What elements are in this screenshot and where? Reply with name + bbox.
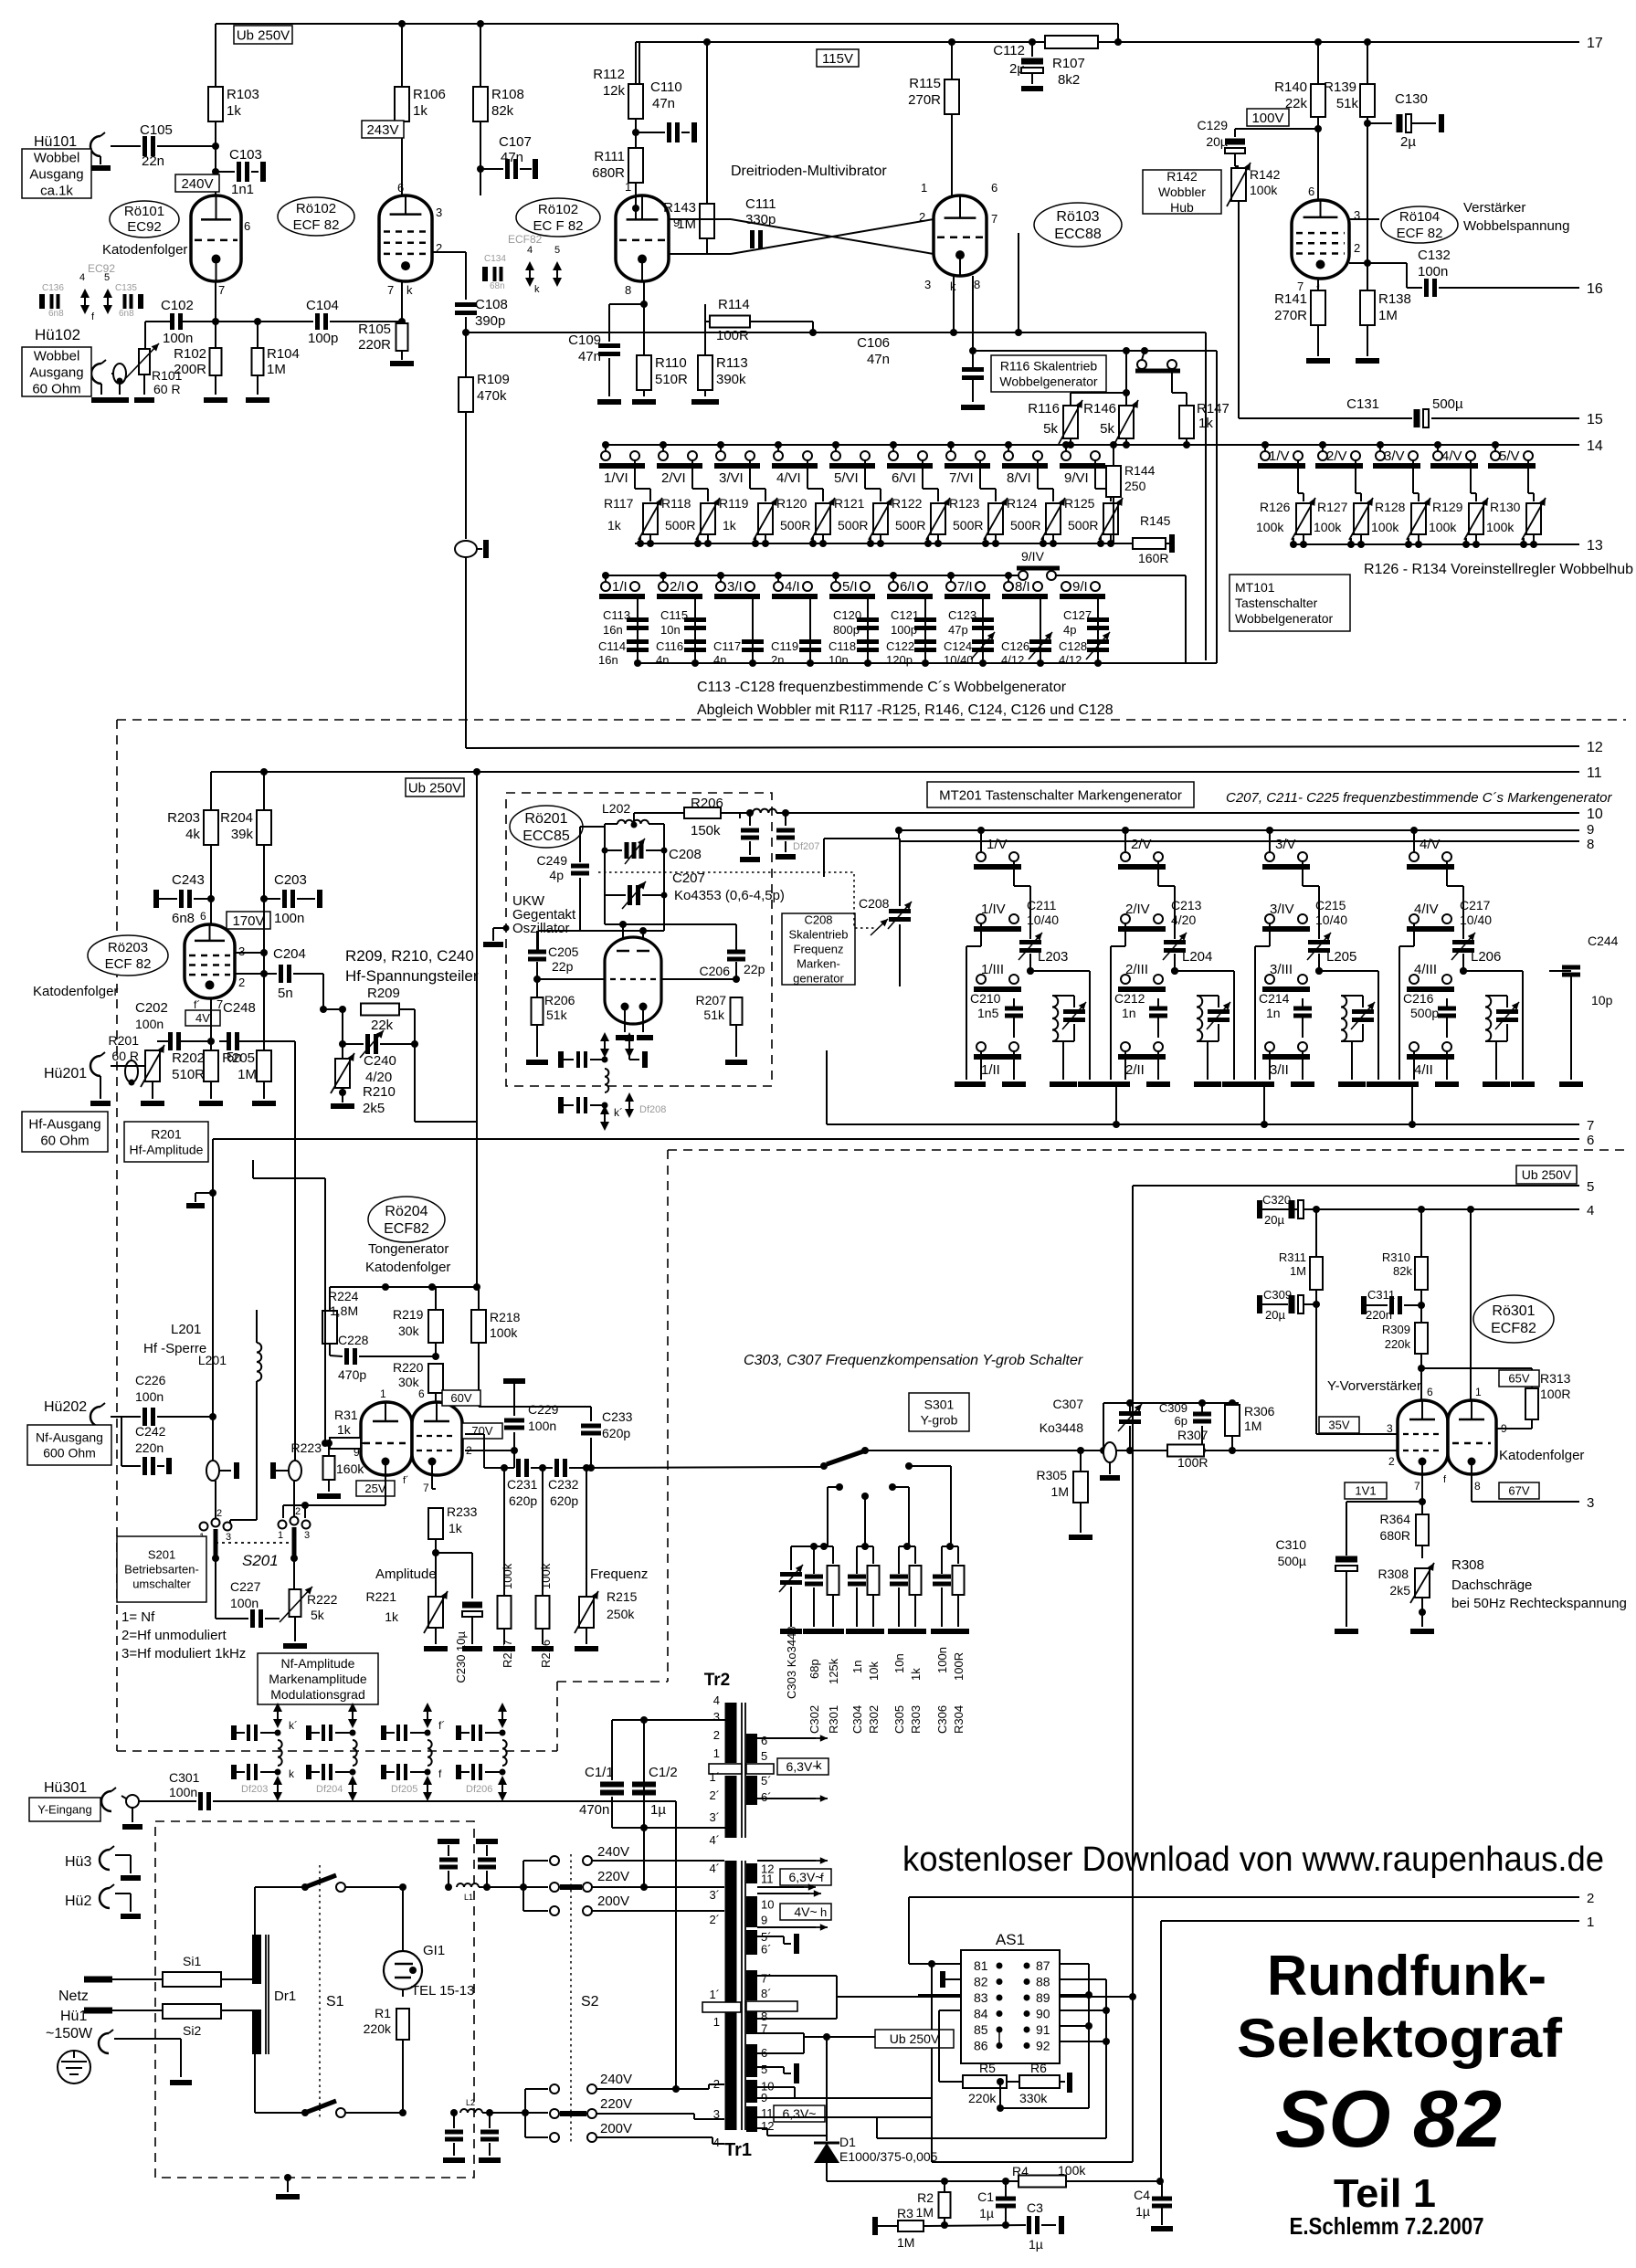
label Rö101 EC92 ellipse (110, 201, 179, 237)
capacitor C309 6p (1159, 1401, 1211, 1454)
svg-text:82k: 82k (491, 103, 514, 119)
svg-text:R311: R311 (1279, 1250, 1306, 1264)
wire Dr1 to S1 upper (255, 1887, 305, 1935)
svg-text:f´: f´ (194, 998, 200, 1011)
dashed bottom border middle section (117, 1750, 557, 1752)
switch 2/V (1315, 441, 1363, 466)
svg-text:ca.1k: ca.1k (40, 183, 73, 198)
svg-text:100p: 100p (308, 331, 338, 346)
svg-text:Tr2: Tr2 (704, 1671, 731, 1690)
label Ub 250V box (234, 26, 292, 44)
svg-text:Dachschräge: Dachschräge (1451, 1577, 1532, 1593)
svg-text:7´: 7´ (761, 1971, 772, 1985)
svg-text:89: 89 (1036, 1990, 1050, 2005)
svg-text:1k: 1k (607, 518, 622, 533)
svg-text:4/V: 4/V (1420, 837, 1441, 852)
svg-text:R201: R201 (109, 1033, 140, 1048)
resistor R311 (1279, 1209, 1323, 1308)
heater detail ECF82 mid (484, 233, 562, 295)
switch 4/II marker (1407, 1042, 1454, 1078)
capacitors unit 9/I (1059, 596, 1110, 667)
capacitor C1/2 (632, 1765, 678, 1831)
svg-text:60V: 60V (450, 1391, 471, 1405)
svg-text:6n8: 6n8 (172, 911, 195, 926)
svg-text:Teil 1: Teil 1 (1334, 2171, 1436, 2216)
svg-text:100k: 100k (490, 1325, 518, 1340)
svg-text:R126: R126 (1260, 500, 1291, 514)
svg-text:C205: C205 (548, 944, 579, 959)
connector Hü202 (44, 1399, 105, 1434)
ground stub left of UKW box (483, 925, 510, 945)
label 60V box (442, 1390, 480, 1406)
svg-text:330p: 330p (745, 212, 776, 227)
svg-text:500R: 500R (895, 518, 925, 533)
capacitor C215 variable (1315, 898, 1347, 927)
wire 100V rail (1235, 128, 1318, 130)
svg-text:1: 1 (1587, 1915, 1594, 1930)
resistor R107 (1045, 36, 1098, 88)
svg-text:R122: R122 (892, 496, 923, 511)
node on Ub rail for R106 (398, 20, 406, 27)
svg-text:10p: 10p (1591, 993, 1613, 1007)
svg-text:5k: 5k (311, 1608, 325, 1622)
svg-text:1= Nf: 1= Nf (121, 1609, 155, 1625)
svg-text:13: 13 (1587, 538, 1603, 554)
svg-text:C109: C109 (568, 332, 601, 348)
svg-text:Y-Eingang: Y-Eingang (37, 1803, 92, 1817)
potentiometer R210 (331, 1040, 396, 1116)
svg-text:8: 8 (1474, 1480, 1481, 1493)
svg-text:Hü301: Hü301 (44, 1780, 87, 1796)
capacitor C214 (1259, 991, 1312, 1038)
svg-text:100k: 100k (1256, 520, 1284, 534)
svg-text:2: 2 (713, 1728, 720, 1742)
svg-text:SO 82: SO 82 (1275, 2073, 1502, 2164)
svg-text:4n: 4n (656, 653, 669, 667)
label Ub 250V box 3 (1516, 1166, 1577, 1184)
svg-text:C210: C210 (970, 991, 1001, 1006)
fuse Si2 (163, 2004, 252, 2038)
capacitors unit 1/I (598, 596, 649, 667)
svg-text:ECF 82: ECF 82 (1397, 226, 1443, 241)
svg-text:25V: 25V (364, 1482, 385, 1495)
svg-text:4n: 4n (713, 653, 726, 667)
svg-text:C128: C128 (1059, 639, 1087, 653)
wire upper to selector (479, 1861, 548, 1911)
svg-text:C124: C124 (944, 639, 972, 653)
resistor R145 (1133, 513, 1172, 565)
switch S301 arm (820, 1447, 869, 1470)
label Rö102 ECF82 ellipse 2 (516, 198, 600, 237)
wire multivibrator cross coupling (669, 219, 934, 254)
wire group 2 right column (1171, 967, 1234, 975)
switch 8/I (1002, 572, 1048, 596)
svg-text:390p: 390p (475, 313, 505, 329)
svg-text:R233: R233 (447, 1504, 478, 1519)
label 6.3V box bottom (774, 2105, 825, 2122)
ground mains box (276, 2174, 300, 2197)
svg-text:4´: 4´ (709, 1833, 720, 1847)
svg-text:Wobbelgenerator: Wobbelgenerator (1235, 611, 1333, 626)
svg-text:R140: R140 (1274, 79, 1307, 95)
potentiometer R201 (109, 1033, 164, 1103)
wire 1V1 to C310 (1346, 1502, 1422, 1556)
svg-text:100V: 100V (1251, 111, 1283, 126)
svg-text:1M: 1M (916, 2205, 934, 2220)
wire bus 11 Ub250V (211, 765, 1602, 781)
transformer Tr2 core (741, 1703, 743, 1838)
resistor R364 (1380, 1502, 1429, 1558)
svg-text:10n: 10n (892, 1653, 906, 1673)
svg-text:100k: 100k (1250, 183, 1278, 197)
svg-text:5/V: 5/V (1499, 448, 1520, 464)
svg-text:C208: C208 (804, 913, 832, 927)
svg-text:C118: C118 (829, 639, 856, 653)
svg-text:90: 90 (1036, 2007, 1050, 2021)
svg-text:C131: C131 (1346, 396, 1379, 412)
node bus17 C112 (1029, 38, 1036, 46)
svg-text:100k: 100k (1486, 520, 1515, 534)
svg-text:4: 4 (1587, 1203, 1594, 1218)
wire R5 R6 node down (997, 2082, 1089, 2112)
connector AS1 box (961, 1931, 1060, 2063)
selector lower 220V (550, 2096, 724, 2119)
svg-text:k´: k´ (614, 1106, 623, 1119)
svg-text:2n: 2n (771, 653, 784, 667)
svg-text:9/VI: 9/VI (1064, 470, 1089, 486)
resistor R108 (473, 24, 524, 169)
svg-text:6: 6 (418, 1387, 425, 1400)
potentiometer R222 (280, 1587, 338, 1646)
svg-text:4/II: 4/II (1414, 1062, 1433, 1078)
svg-text:16n: 16n (603, 623, 623, 637)
wire vertical 233 (186, 1139, 216, 1461)
svg-text:12k: 12k (603, 83, 626, 99)
resistor R306 (1225, 1403, 1275, 1454)
svg-text:500R: 500R (1010, 518, 1040, 533)
wire C204 to R209 node (320, 974, 346, 1013)
svg-text:4V~: 4V~ (794, 1904, 817, 1919)
svg-text:3: 3 (713, 1710, 720, 1724)
svg-text:R201: R201 (151, 1126, 182, 1141)
wire group 3 right column (1315, 967, 1378, 975)
svg-text:600 Ohm: 600 Ohm (43, 1445, 96, 1460)
resistor R144 (1106, 441, 1156, 543)
svg-text:R116: R116 (1028, 401, 1060, 417)
inductor L201 (198, 1310, 261, 1523)
capacitor C226 (111, 1373, 216, 1426)
svg-text:500µ: 500µ (1278, 1554, 1306, 1568)
resistor R113 (691, 304, 748, 402)
switch 4/VI (772, 441, 818, 486)
svg-text:20µ: 20µ (1264, 1213, 1284, 1227)
svg-text:R221: R221 (366, 1589, 397, 1604)
diode D1 (814, 2037, 938, 2181)
svg-text:Hü101: Hü101 (34, 134, 77, 150)
svg-text:7: 7 (1414, 1480, 1420, 1493)
svg-text:220k: 220k (1385, 1337, 1411, 1351)
svg-text:150k: 150k (691, 823, 721, 839)
label 4V h box (780, 1904, 831, 1920)
svg-text:Katodenfolger: Katodenfolger (1499, 1448, 1584, 1463)
label 115V box (817, 49, 859, 67)
svg-text:2: 2 (1388, 1455, 1395, 1468)
terminal AS1 pin82 (943, 1971, 961, 1988)
svg-text:Ub 250V: Ub 250V (1522, 1167, 1572, 1182)
svg-text:1/IV: 1/IV (981, 902, 1006, 917)
svg-text:500R: 500R (838, 518, 868, 533)
resistor R203 (167, 772, 218, 899)
svg-text:ECC85: ECC85 (522, 828, 570, 844)
svg-text:R141: R141 (1274, 291, 1307, 307)
wire lower to selector (482, 2089, 548, 2137)
svg-text:Hf-Ausgang: Hf-Ausgang (28, 1116, 100, 1132)
svg-text:92: 92 (1036, 2039, 1050, 2053)
switch S1 upper arm (301, 1875, 402, 1892)
svg-text:100k: 100k (501, 1563, 514, 1589)
svg-text:800p: 800p (833, 623, 860, 637)
label 35V box (1319, 1417, 1359, 1433)
svg-text:243V: 243V (366, 122, 398, 138)
svg-text:500R: 500R (1068, 518, 1098, 533)
svg-text:~150W: ~150W (46, 2026, 93, 2041)
svg-text:120p: 120p (886, 653, 913, 667)
capacitor C244 (1549, 934, 1619, 1084)
svg-text:1/II: 1/II (981, 1062, 1000, 1078)
svg-text:ECF82: ECF82 (384, 1221, 429, 1237)
lamp GI1 (384, 1883, 475, 1999)
transformer Tr1 left winding (702, 1861, 741, 2130)
wire y384 line (973, 350, 1217, 352)
svg-text:3: 3 (238, 944, 245, 958)
svg-text:C116: C116 (656, 639, 683, 653)
svg-text:160k: 160k (336, 1461, 364, 1476)
svg-text:C111: C111 (745, 196, 776, 212)
svg-text:R209: R209 (367, 986, 400, 1001)
svg-text:2/IV: 2/IV (1125, 902, 1150, 917)
svg-text:C122: C122 (886, 639, 914, 653)
oscillator loop wires (605, 824, 664, 931)
wire Tr1 arrows right (757, 1857, 828, 1931)
svg-text:680R: 680R (1380, 1528, 1410, 1543)
svg-text:100n: 100n (1418, 264, 1448, 280)
label Wobbel Ausgang 60 Ohm box (22, 347, 91, 396)
resistor R143 (663, 200, 714, 254)
tube Rö102b (616, 180, 680, 297)
svg-text:6: 6 (1308, 185, 1314, 198)
svg-text:L205: L205 (1326, 949, 1356, 965)
svg-text:Df203: Df203 (241, 1784, 268, 1795)
ground leads group 3 (1243, 971, 1390, 1084)
svg-text:R144: R144 (1124, 463, 1156, 478)
capacitor C242 (121, 1417, 169, 1475)
svg-text:250k: 250k (607, 1607, 635, 1621)
svg-text:2: 2 (919, 210, 925, 224)
wire vertical 323 S201 feed (294, 1041, 296, 1461)
svg-text:6n8: 6n8 (119, 309, 134, 319)
svg-text:Skalentrieb: Skalentrieb (788, 928, 848, 942)
switch 4/V marker (1407, 827, 1463, 939)
svg-text:R310: R310 (1382, 1250, 1410, 1264)
dashed section divider top (117, 719, 1626, 721)
svg-text:C127: C127 (1063, 608, 1092, 622)
svg-text:8k2: 8k2 (1058, 72, 1080, 88)
wire bus 14 (606, 444, 1579, 446)
choke Dr1 (257, 1935, 296, 2054)
svg-text:R102: R102 (174, 346, 206, 362)
wire cathode Rö101 to R102 (215, 281, 216, 350)
svg-text:C212: C212 (1114, 991, 1145, 1006)
svg-text:R219: R219 (393, 1307, 424, 1322)
wire Rö104 pin3 stub (1349, 218, 1379, 220)
capacitor C105 (111, 122, 219, 169)
svg-text:100k: 100k (1314, 520, 1342, 534)
svg-text:100k: 100k (1371, 520, 1399, 534)
svg-text:R31: R31 (334, 1408, 358, 1422)
svg-text:Wobbelgenerator: Wobbelgenerator (999, 374, 1097, 388)
svg-text:115V: 115V (822, 51, 853, 67)
svg-text:82: 82 (974, 1975, 988, 1989)
transformer Tr1 left pin labels (709, 1862, 720, 2149)
wire pentode grid to C108 node (432, 251, 466, 253)
svg-text:220V: 220V (597, 1869, 629, 1884)
wire Tr2 pin6p arrow (757, 1795, 828, 1802)
svg-text:R209, R210, C240: R209, R210, C240 (345, 947, 474, 965)
connector 150W jack (99, 2030, 192, 2083)
svg-text:MT201 Tastenschalter Marken: MT201 Tastenschalter Markengenerator (939, 787, 1182, 803)
svg-text:Y-Vorverstärker: Y-Vorverstärker (1327, 1378, 1421, 1394)
capacitor C213 variable (1171, 898, 1202, 927)
svg-text:4´: 4´ (709, 1862, 720, 1875)
wire 35V grid feed (1316, 1433, 1398, 1435)
svg-text:10/40: 10/40 (1315, 912, 1347, 927)
svg-text:Rö102: Rö102 (296, 201, 336, 216)
svg-text:R104: R104 (267, 346, 300, 362)
svg-text:390k: 390k (716, 372, 746, 387)
capacitor C208 skalentrieb variable (859, 896, 912, 986)
node bus17 R143 (703, 38, 711, 46)
svg-text:1: 1 (1475, 1386, 1482, 1398)
svg-text:200V: 200V (600, 2121, 632, 2136)
resistor R102 (174, 346, 227, 400)
capacitor C4 (1134, 2181, 1173, 2229)
svg-text:R121: R121 (834, 496, 865, 511)
capacitor C202 (135, 1000, 215, 1050)
capacitor C106 (857, 335, 985, 407)
svg-text:100n: 100n (163, 331, 193, 346)
capacitor C243 (156, 872, 215, 926)
svg-text:R309: R309 (1382, 1323, 1410, 1336)
svg-text:7: 7 (387, 283, 394, 297)
svg-text:5k: 5k (1043, 421, 1058, 437)
svg-text:500R: 500R (780, 518, 810, 533)
label Rö103 ECC88 ellipse (1034, 203, 1122, 247)
capacitor C102 (145, 298, 219, 346)
capacitor C1 (977, 2181, 1016, 2229)
svg-text:R110: R110 (655, 355, 687, 371)
capacitor C108 (455, 297, 508, 332)
svg-text:5n: 5n (278, 986, 293, 1001)
svg-text:6/VI: 6/VI (892, 470, 916, 486)
svg-text:Hü202: Hü202 (44, 1399, 87, 1415)
svg-text:9: 9 (1501, 1422, 1507, 1435)
svg-text:C108: C108 (475, 297, 508, 312)
svg-text:Rö104: Rö104 (1399, 209, 1440, 225)
selector lower 200V (550, 2121, 724, 2144)
capacitor C112 electrolytic (993, 42, 1043, 89)
node bus4 R310 (1418, 1206, 1425, 1213)
svg-text:C132: C132 (1418, 248, 1451, 263)
svg-text:R215: R215 (607, 1589, 638, 1604)
svg-text:Frequenz: Frequenz (794, 943, 844, 956)
svg-text:R218: R218 (490, 1310, 521, 1324)
svg-text:C240: C240 (364, 1053, 396, 1069)
switch 3/VI (714, 441, 760, 486)
svg-text:Si1: Si1 (183, 1954, 201, 1968)
resistor R309 (1382, 1299, 1428, 1400)
svg-text:Hf-Spannungsteiler: Hf-Spannungsteiler (345, 967, 479, 985)
svg-text:R118: R118 (661, 496, 691, 511)
svg-text:22n: 22n (142, 153, 164, 169)
capacitor C232 (534, 1459, 824, 1508)
potentiometer R126 (1256, 460, 1315, 548)
node bus17 R115 (948, 38, 955, 46)
svg-text:10/40: 10/40 (1460, 912, 1492, 927)
potentiometer R215 Frequenz (575, 1464, 648, 1649)
svg-text:6: 6 (244, 219, 250, 233)
wire vertical 1332 (1216, 351, 1218, 663)
dashed mains filter box (155, 1821, 474, 2178)
svg-text:47n: 47n (867, 352, 890, 367)
resistor R216 (532, 1464, 554, 1668)
svg-text:7/I: 7/I (957, 579, 973, 595)
svg-text:C206: C206 (700, 964, 731, 978)
svg-text:C243: C243 (172, 872, 205, 888)
svg-text:Dreitrioden-Multivibrator: Dreitrioden-Multivibrator (731, 164, 887, 179)
svg-text:1k: 1k (723, 518, 737, 533)
switch 1/VI (599, 441, 645, 486)
svg-text:R222: R222 (307, 1592, 338, 1607)
svg-text:47n: 47n (578, 349, 601, 364)
svg-text:E1000/375-0,005: E1000/375-0,005 (839, 2149, 938, 2164)
switch 1/IV marker (966, 902, 1021, 1047)
svg-text:C249: C249 (537, 853, 568, 868)
svg-text:3/V: 3/V (1275, 837, 1296, 852)
svg-text:R108: R108 (491, 87, 524, 102)
coupling transformer Df205 (384, 1703, 445, 1801)
dotted mechanical link C207 C208 (598, 872, 877, 928)
svg-text:100n: 100n (274, 911, 304, 926)
label 100V box (1247, 109, 1289, 126)
node bus17 drop (1114, 38, 1122, 46)
svg-text:C216: C216 (1403, 991, 1434, 1006)
svg-text:620p: 620p (602, 1426, 630, 1440)
label R116 Skalentrieb box (991, 355, 1106, 392)
svg-text:R3: R3 (897, 2206, 913, 2221)
svg-text:8: 8 (1587, 837, 1594, 852)
wire AS1 pin84 (939, 2010, 961, 2082)
svg-text:C217: C217 (1460, 898, 1491, 912)
resistor R105 (358, 281, 414, 364)
svg-text:68p: 68p (807, 1659, 821, 1679)
svg-text:100R: 100R (1177, 1455, 1208, 1470)
svg-text:86: 86 (974, 2039, 988, 2053)
svg-text:generator: generator (793, 972, 844, 986)
tube Rö101 (191, 181, 250, 297)
svg-text:1M: 1M (237, 1067, 257, 1082)
node bus17 R140 (1314, 38, 1322, 46)
svg-text:3/V: 3/V (1384, 448, 1405, 464)
